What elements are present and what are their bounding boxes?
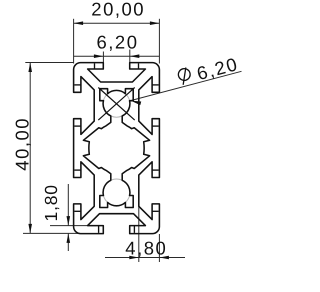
lip tip line bottom slot right [133, 226, 135, 233]
diameter symbol slash [179, 67, 190, 84]
arrow 4,80 left (outside) [129, 256, 139, 260]
extension line left (20,00 / profile left face) [73, 19, 75, 64]
lip tip line top slot left [94, 63, 96, 69]
dimension line 1,80 lower segment [67, 233, 69, 251]
core hole circle top (Ø6,20) [103, 90, 130, 117]
lip tip line left slot [74, 125, 81, 127]
lip tip line bottom slot left [98, 226, 100, 233]
svg-text:4,80: 4,80 [125, 237, 167, 258]
arrow 20,00 left [74, 21, 84, 25]
arrow 1,80 upper (points down) [67, 216, 71, 226]
extension line right (20,00 / profile right face) [158, 19, 160, 64]
dimension line 40,00 [29, 63, 31, 234]
svg-text:20,00: 20,00 [91, 0, 145, 19]
lip tip line right slot [152, 84, 159, 86]
dimension line 1,80 upper segment [67, 184, 69, 226]
dimension line 4,80 [105, 257, 185, 259]
arrow 20,00 right [150, 21, 160, 25]
lip tip line right slot [152, 210, 159, 212]
extension line 6,20 right [129, 50, 131, 63]
svg-text:40,00: 40,00 [12, 117, 33, 171]
extension line 40,00/1,80 bottom [23, 232, 80, 234]
extension line 40,00 top [25, 62, 73, 64]
lip tip line right slot [152, 125, 159, 127]
dimension line 6,20 [74, 55, 160, 57]
lip tip line left slot [74, 210, 81, 212]
extension line 1,80 top [50, 225, 96, 227]
arrow 6,20 left (outside) [94, 54, 104, 58]
arrow 40,00 top [28, 63, 32, 73]
arrow 40,00 bottom [28, 224, 32, 234]
thread cross line 2 [98, 88, 134, 121]
diameter symbol circle [177, 67, 191, 81]
lip tip line right slot [152, 169, 159, 171]
svg-text:6,20: 6,20 [96, 31, 138, 52]
arrow 6,20 right (outside) [130, 54, 140, 58]
extension line 4,80 right (profile right face) [158, 234, 160, 262]
extension line 6,20 left [102, 52, 104, 63]
lip tip line left slot [74, 84, 81, 86]
dimension line 20,00 [74, 22, 160, 24]
lip tip line left slot [74, 169, 81, 171]
arrow 1,80 lower (points up) [67, 233, 71, 243]
core hole circle bottom (Ø6,20) [103, 179, 130, 206]
leader line Ø 6,20 [131, 71, 242, 100]
thread cross line 1 [98, 88, 134, 121]
central void: top screw port + center bore + bottom screw port [83, 89, 149, 208]
arrow 4,80 right (outside) [159, 256, 169, 260]
extension line 4,80 left (slot bottom) [138, 206, 140, 262]
profile outer contour with four T-slots [74, 63, 160, 234]
svg-text:1,80: 1,80 [41, 184, 61, 221]
arrow leader Ø 6,20 [131, 101, 142, 106]
lip tip line top slot right [138, 63, 140, 69]
